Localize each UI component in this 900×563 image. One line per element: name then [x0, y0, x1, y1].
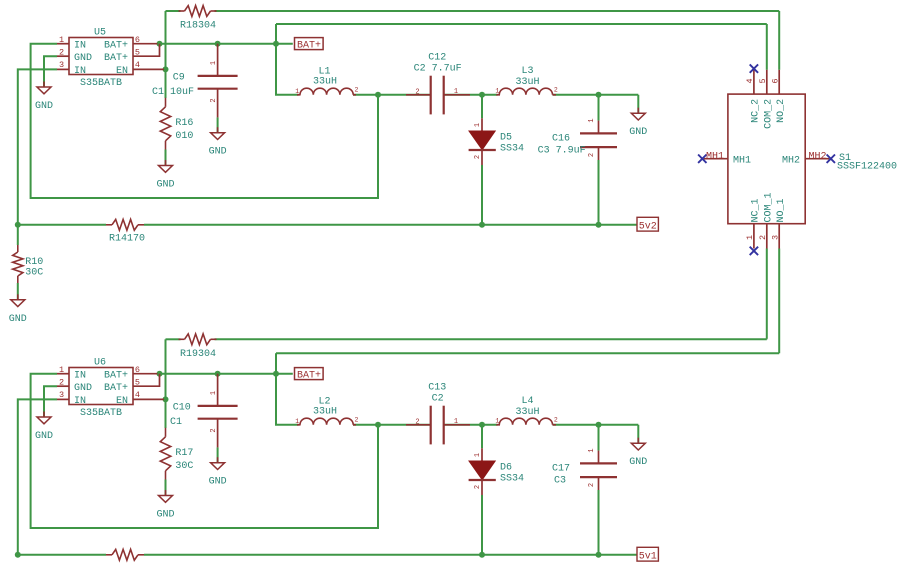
svg-text:NO_2: NO_2	[776, 99, 787, 123]
wire R10 to ground	[17, 283, 19, 300]
svg-text:6: 6	[135, 35, 140, 45]
switch S1 bottom pin stubs 1 2 3	[753, 224, 755, 249]
svg-text:C9: C9	[173, 72, 185, 83]
wire switch pin3 NO_1 down to BAT+ rail	[778, 249, 780, 354]
resistor R10	[13, 252, 23, 276]
wire R19304 left vertical	[165, 339, 167, 399]
svg-text:2: 2	[588, 153, 596, 157]
svg-text:IN: IN	[74, 370, 86, 381]
svg-text:2: 2	[474, 485, 482, 489]
capacitor C16 plates	[580, 132, 617, 134]
capacitor C9 plates	[198, 75, 238, 77]
resistor R19304	[185, 334, 211, 345]
wire cap C13 to diode node	[444, 424, 498, 426]
capacitor C9 lead from BAT+ bus	[217, 44, 219, 76]
svg-text:1: 1	[454, 88, 458, 96]
junction diode D6 on output rail	[479, 552, 485, 558]
junction pin6 node	[157, 41, 163, 47]
capacitor C12 leads	[406, 94, 431, 96]
global label 5v2	[637, 217, 658, 231]
junction inductor L2 output node	[375, 422, 381, 428]
junction cap C17 node	[596, 422, 602, 428]
global label BAT+	[295, 368, 324, 380]
diode D5 body	[469, 131, 495, 150]
ground below U6 pin2	[43, 412, 45, 418]
svg-text:4: 4	[135, 390, 140, 400]
svg-text:2: 2	[210, 98, 218, 102]
junction cap C9 node	[215, 41, 221, 47]
ic U6 right pin stubs	[133, 373, 158, 375]
global label 5v1	[637, 547, 658, 561]
wire R16 to ground	[165, 150, 167, 166]
svg-text:GND: GND	[35, 431, 53, 442]
wire BAT+ node up to switch	[275, 24, 277, 44]
svg-text:5: 5	[758, 78, 768, 83]
wire GND drop right of L4	[637, 425, 639, 443]
wire cap C10 input drop	[217, 447, 219, 462]
junction BAT+ node	[273, 371, 279, 377]
ground right of L3	[637, 108, 639, 114]
svg-text:IN: IN	[74, 40, 86, 51]
ic U6 pin4 stub	[133, 398, 164, 400]
wire inductor L3 to output cap node	[553, 94, 639, 96]
svg-text:EN: EN	[116, 66, 128, 77]
svg-text:5: 5	[135, 377, 140, 387]
inductor L2	[297, 424, 301, 426]
ground right of L4	[637, 438, 639, 444]
svg-text:GND: GND	[156, 180, 174, 191]
svg-text:NC_2: NC_2	[751, 99, 762, 123]
junction BAT+ node	[273, 41, 279, 47]
svg-text:2: 2	[59, 47, 64, 57]
svg-text:R18304: R18304	[180, 21, 216, 32]
svg-text:1: 1	[495, 88, 499, 95]
junction cap C16 on output rail	[596, 222, 602, 228]
ic U5 body	[69, 38, 133, 75]
svg-text:33uH: 33uH	[313, 407, 337, 418]
svg-text:2: 2	[588, 483, 596, 487]
wire R18304 left vertical	[165, 11, 167, 69]
svg-text:2: 2	[474, 155, 482, 159]
svg-text:2: 2	[415, 419, 419, 427]
svg-text:GND: GND	[629, 127, 647, 138]
junction output rail left	[15, 552, 21, 558]
capacitor C17 leads	[598, 451, 600, 464]
svg-text:D6: D6	[500, 462, 512, 473]
wire R17 to ground	[165, 480, 167, 496]
wire U6 pin2 to GND	[44, 386, 57, 417]
wire inductor L2 to cap C13	[353, 424, 431, 426]
junction diode D5 node	[479, 92, 485, 98]
svg-text:C2 7.7uF: C2 7.7uF	[414, 64, 462, 75]
junction diode D5 on output rail	[479, 222, 485, 228]
capacitor C10 plates	[198, 405, 238, 407]
svg-text:C3 7.9uF: C3 7.9uF	[538, 145, 586, 156]
svg-text:2: 2	[355, 87, 359, 94]
wire cap C12 to diode node	[444, 94, 498, 96]
resistor R17	[160, 437, 170, 471]
junction output rail left	[15, 222, 21, 228]
svg-text:2: 2	[355, 417, 359, 424]
svg-text:L3: L3	[521, 66, 533, 77]
svg-text:6: 6	[135, 365, 140, 375]
wire diode D6 vertical	[481, 425, 483, 449]
svg-text:010: 010	[175, 131, 193, 142]
svg-text:COM_1: COM_1	[763, 192, 774, 222]
ground below R17	[165, 490, 167, 496]
ground below R10	[17, 294, 19, 300]
svg-text:5v2: 5v2	[639, 221, 657, 232]
svg-text:COM_2: COM_2	[763, 99, 774, 129]
svg-text:BAT+: BAT+	[297, 370, 321, 381]
svg-text:IN: IN	[74, 396, 86, 407]
switch S1 MH2 stub	[805, 158, 829, 160]
wire cap C17 vertical	[598, 425, 600, 451]
wire EN junction to resistor R16	[165, 69, 167, 98]
svg-text:U6: U6	[94, 358, 106, 369]
svg-text:1: 1	[295, 88, 299, 95]
capacitor C16 leads	[598, 121, 600, 134]
junction inductor L1 output node	[375, 92, 381, 98]
switch S1 body	[728, 94, 805, 224]
svg-text:1: 1	[59, 35, 64, 45]
capacitor C17 plates	[580, 462, 617, 464]
resistor R16	[160, 107, 170, 141]
junction EN node	[163, 66, 169, 72]
svg-text:C1: C1	[170, 417, 182, 428]
svg-text:BAT+: BAT+	[104, 370, 128, 381]
svg-text:1: 1	[745, 235, 755, 240]
svg-text:3: 3	[59, 390, 64, 400]
ground below R16	[165, 160, 167, 166]
svg-text:GND: GND	[156, 510, 174, 521]
svg-text:5: 5	[135, 47, 140, 57]
svg-text:GND: GND	[74, 383, 92, 394]
wire output rail 5v2	[18, 224, 106, 226]
svg-text:SS34: SS34	[500, 143, 524, 154]
svg-text:GND: GND	[74, 53, 92, 64]
ground below capacitor C9	[217, 127, 219, 133]
wire U5 pin1 loop (IN to inductor node)	[31, 44, 378, 198]
svg-text:GND: GND	[35, 101, 53, 112]
svg-text:2: 2	[554, 417, 558, 424]
wire BAT+ node down to L	[276, 44, 299, 95]
svg-text:SS34: SS34	[500, 473, 524, 484]
wire output rail to R10	[17, 225, 19, 245]
svg-text:MH1: MH1	[706, 151, 724, 162]
diode D5 anode lead	[481, 118, 483, 131]
svg-text:1: 1	[210, 61, 218, 65]
svg-text:1: 1	[59, 365, 64, 375]
svg-text:3: 3	[59, 60, 64, 70]
resistor R18304	[185, 6, 211, 17]
capacitor C10 bottom lead	[217, 419, 219, 448]
ground below U5 pin2	[43, 82, 45, 88]
svg-text:BAT+: BAT+	[104, 383, 128, 394]
svg-text:C13: C13	[428, 383, 446, 394]
svg-text:D5: D5	[500, 132, 512, 143]
wire U5 pin2 to GND	[44, 56, 57, 87]
junction cap C16 node	[596, 92, 602, 98]
ic U5 left pin stubs	[57, 43, 69, 45]
wire cap C9 input drop	[217, 117, 219, 132]
svg-text:C16: C16	[552, 133, 570, 144]
svg-text:BAT+: BAT+	[297, 40, 321, 51]
svg-text:6: 6	[770, 78, 780, 83]
ic U6 body	[69, 368, 133, 405]
svg-text:S35BATB: S35BATB	[80, 408, 122, 419]
svg-text:EN: EN	[116, 396, 128, 407]
svg-text:1: 1	[210, 391, 218, 395]
ic U5 right pin stubs	[133, 43, 158, 45]
svg-text:C12: C12	[428, 53, 446, 64]
wire BAT+ node down to L	[276, 374, 299, 425]
svg-text:C10: C10	[173, 402, 191, 413]
diode D6 anode lead	[481, 448, 483, 461]
svg-text:MH1: MH1	[733, 155, 751, 166]
global label BAT+	[295, 38, 324, 50]
svg-text:1: 1	[588, 118, 596, 122]
switch S1 MH1 stub	[704, 158, 728, 160]
svg-text:L4: L4	[521, 396, 533, 407]
svg-text:5v1: 5v1	[639, 551, 657, 562]
ground below capacitor C10	[217, 457, 219, 463]
wire output rail 5v1	[18, 554, 106, 556]
wire BAT+ node up to switch	[275, 353, 277, 374]
ic U5 pin5 stub bend	[133, 44, 160, 57]
svg-text:4: 4	[745, 78, 755, 83]
ic U6 pin5 stub bend	[133, 374, 160, 387]
svg-text:C1 10uF: C1 10uF	[152, 87, 194, 98]
junction EN node	[163, 396, 169, 402]
wire U5 pin3 to output rail	[18, 69, 57, 224]
svg-text:33uH: 33uH	[313, 77, 337, 88]
svg-text:BAT+: BAT+	[104, 40, 128, 51]
series resistor on 5v2 rail	[112, 219, 138, 230]
svg-text:1: 1	[474, 453, 482, 457]
wire U6 pin3 to output rail	[18, 399, 57, 554]
wire diode D5 vertical	[481, 95, 483, 119]
no-connect pin 4	[750, 64, 758, 72]
svg-text:C17: C17	[552, 463, 570, 474]
svg-text:2: 2	[59, 377, 64, 387]
svg-text:BAT+: BAT+	[104, 53, 128, 64]
inductor L3	[496, 94, 500, 96]
svg-text:R16: R16	[175, 118, 193, 129]
wire EN junction to resistor R17	[165, 399, 167, 428]
capacitor C13 plates	[430, 406, 432, 445]
series resistor on 5v1 rail	[112, 549, 138, 560]
svg-text:1: 1	[454, 418, 458, 426]
wire BAT+ bus	[158, 373, 293, 375]
ic U6 left pin stubs	[57, 373, 69, 375]
capacitor C13 leads	[406, 424, 431, 426]
svg-text:2: 2	[758, 235, 768, 240]
diode D6 body	[469, 461, 495, 480]
wire U6 pin1 loop (IN to inductor node)	[31, 374, 378, 528]
wire switch pin2 COM_1 down to R19304 rail	[766, 249, 768, 339]
svg-text:2: 2	[554, 87, 558, 94]
svg-text:GND: GND	[9, 314, 27, 325]
svg-text:4: 4	[135, 60, 140, 70]
svg-text:R10: R10	[25, 257, 43, 268]
capacitor C9 bottom lead	[217, 89, 219, 118]
wire R19304 rail	[166, 338, 181, 340]
wire cap C16 vertical	[598, 95, 600, 121]
junction cap C10 node	[215, 371, 221, 377]
svg-text:GND: GND	[209, 477, 227, 488]
svg-text:33uH: 33uH	[515, 77, 539, 88]
svg-text:MH2: MH2	[782, 155, 800, 166]
svg-text:1: 1	[495, 418, 499, 425]
junction cap C17 on output rail	[596, 552, 602, 558]
no-connect pin 1	[750, 247, 758, 255]
no-connect MH1	[698, 155, 706, 163]
wire inductor L1 to cap C12	[353, 94, 431, 96]
svg-text:R19304: R19304	[180, 349, 216, 360]
svg-text:3: 3	[770, 235, 780, 240]
svg-text:30C: 30C	[25, 268, 43, 279]
no-connect MH2	[827, 155, 835, 163]
svg-text:R17: R17	[175, 448, 193, 459]
junction diode D6 node	[479, 422, 485, 428]
diode D5 cathode lead	[481, 150, 483, 165]
svg-text:33uH: 33uH	[515, 407, 539, 418]
svg-text:SSSF122400: SSSF122400	[837, 162, 897, 173]
wire inductor L4 to output cap node	[553, 424, 639, 426]
wire BAT+ bus	[158, 43, 293, 45]
capacitor C12 plates	[430, 76, 432, 115]
svg-text:C2: C2	[432, 394, 444, 405]
svg-text:IN: IN	[74, 66, 86, 77]
diode D6 cathode lead	[481, 480, 483, 495]
svg-text:1: 1	[295, 418, 299, 425]
svg-text:GND: GND	[629, 457, 647, 468]
wire GND drop right of L3	[637, 95, 639, 113]
svg-text:1: 1	[474, 123, 482, 127]
svg-text:1: 1	[588, 448, 596, 452]
svg-text:S35BATB: S35BATB	[80, 78, 122, 89]
junction pin6 node	[157, 371, 163, 377]
svg-text:U5: U5	[94, 28, 106, 39]
inductor L4	[496, 424, 500, 426]
switch S1 top pin stubs 4 5 6	[753, 70, 755, 94]
capacitor C10 lead from BAT+ bus	[217, 374, 219, 406]
svg-text:2: 2	[415, 89, 419, 97]
svg-text:NC_1: NC_1	[751, 198, 762, 222]
svg-text:NO_1: NO_1	[776, 198, 787, 222]
inductor L1	[297, 94, 301, 96]
svg-text:2: 2	[210, 428, 218, 432]
wire R18304 rail	[166, 10, 181, 12]
svg-text:R14170: R14170	[109, 234, 145, 245]
svg-text:GND: GND	[209, 147, 227, 158]
svg-text:C3: C3	[554, 475, 566, 486]
ic U5 pin4 stub	[133, 68, 164, 70]
svg-text:30C: 30C	[175, 461, 193, 472]
svg-text:MH2: MH2	[809, 151, 827, 162]
